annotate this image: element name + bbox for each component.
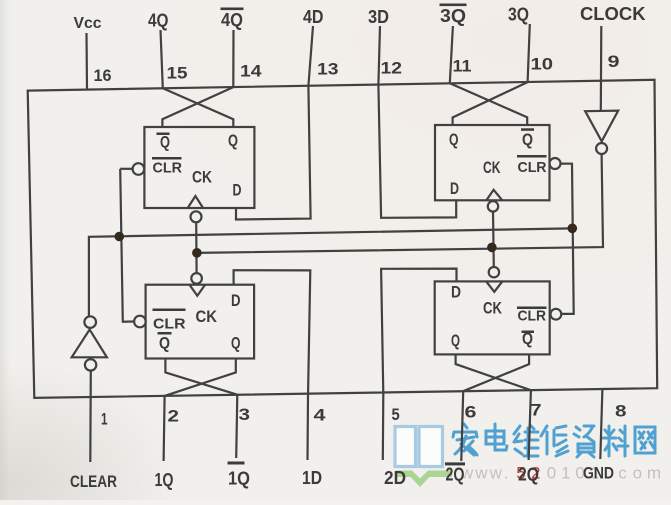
junction clear-right [568, 224, 578, 234]
wire crossover U3 Qbar to pin3 [165, 359, 237, 395]
svg-text:2: 2 [168, 407, 180, 426]
clock triangle U4 [486, 281, 502, 291]
svg-text:Q: Q [231, 334, 241, 353]
svg-text:CLEAR: CLEAR [70, 472, 117, 491]
clock bubble U3 [191, 273, 202, 284]
label 3Qbar [440, 4, 467, 27]
svg-text:Q: Q [228, 131, 238, 150]
svg-text:3: 3 [239, 405, 251, 424]
label U1 CLR [152, 157, 182, 177]
wire crossover pin14 to U1 Qbar [162, 87, 233, 127]
svg-text:1Q: 1Q [155, 470, 174, 490]
svg-text:CLR: CLR [153, 160, 183, 177]
clock bubble U1 [191, 211, 202, 222]
svg-text:CK: CK [483, 158, 501, 177]
svg-text:3Q: 3Q [508, 5, 529, 25]
junction clock-right [487, 243, 497, 253]
svg-text:9: 9 [608, 52, 620, 71]
svg-text:CLR: CLR [518, 159, 547, 176]
svg-text:CK: CK [192, 168, 213, 187]
clock bubble U4 [489, 267, 499, 277]
watermark chinese char jia [453, 424, 477, 455]
wire pin12 3D to FF3 D input [378, 26, 456, 218]
svg-text:Q: Q [449, 130, 459, 149]
clock triangle U3 [190, 285, 206, 296]
wire pin7 2Q [529, 390, 531, 460]
svg-text:3D: 3D [368, 7, 389, 27]
wire pin16 Vcc [85, 33, 88, 90]
svg-text:D: D [450, 179, 459, 198]
svg-text:CLR: CLR [153, 316, 186, 333]
flip-flop U2 box [435, 125, 550, 200]
svg-text:4Q: 4Q [148, 11, 169, 31]
wire crossover pin15 to U1 Q [163, 88, 234, 127]
flip-flop U1 box [144, 127, 254, 208]
wire crossover U4 Q to pin7 [456, 354, 531, 390]
wire clear bus horizontal [89, 228, 572, 316]
svg-text:6: 6 [465, 403, 477, 422]
svg-text:10: 10 [531, 55, 554, 74]
label U3 CLR [153, 309, 186, 333]
svg-text:16: 16 [94, 66, 112, 85]
watermark chinese char xiu [541, 426, 568, 456]
label 4Qbar [221, 8, 244, 31]
wire pin14 4Qbar [232, 30, 234, 87]
watermark book icon left page [395, 427, 416, 467]
svg-text:D: D [233, 181, 242, 200]
watermark chinese char liao [603, 426, 628, 456]
watermark chinese char wei [514, 425, 538, 456]
label U3 Qbar [158, 332, 172, 353]
wire clock bus horizontal [197, 154, 603, 253]
svg-text:5: 5 [392, 405, 400, 424]
svg-text:1: 1 [101, 410, 108, 429]
wire pin15 4Q [161, 30, 163, 88]
svg-text:Q: Q [522, 130, 533, 149]
label 2Qbar [445, 462, 465, 484]
wire U3 D input from pin4 [234, 270, 311, 460]
watermark chinese char wang [635, 427, 655, 453]
clock triangle U2 [486, 190, 502, 201]
wire clear vertical to U1 and U3 CLR [120, 168, 132, 170]
watermark book icon right page [419, 427, 443, 467]
wire U4 D input from pin5 [381, 269, 456, 460]
wire pin8 GND [600, 389, 602, 459]
inverter U6 input bubble [85, 359, 96, 370]
wire pin2 1Q [164, 396, 165, 461]
svg-text:w: w [489, 464, 503, 483]
svg-text:Q: Q [159, 334, 170, 353]
watermark chinese char dian [486, 424, 507, 450]
svg-text:3Q: 3Q [440, 6, 466, 26]
svg-text:8: 8 [615, 402, 627, 421]
IC outline rectangle [28, 80, 658, 398]
inverter U5 output bubble [596, 143, 607, 154]
svg-text:CK: CK [483, 299, 503, 318]
svg-text:Q: Q [160, 133, 170, 152]
svg-text:o: o [633, 464, 642, 483]
svg-text:c: c [618, 464, 627, 483]
watermark green swoosh [396, 471, 452, 488]
svg-text:CK: CK [196, 307, 218, 326]
svg-text:2D: 2D [384, 468, 406, 488]
wire pin3 1Qbar [236, 395, 237, 458]
watermark url text [460, 464, 661, 483]
label U2 Qbar [521, 128, 534, 149]
label 1Qbar [228, 462, 251, 489]
wire pin6 2Qbar [461, 391, 463, 461]
wire crossover pin11 to U2 Qbar [450, 83, 527, 125]
label U2 CLR [517, 155, 547, 176]
svg-text:4Q: 4Q [221, 10, 243, 30]
clock bubble U2 [488, 201, 498, 211]
svg-text:12: 12 [381, 59, 403, 78]
svg-text:m: m [647, 464, 661, 483]
wire pin1 CLEAR [89, 371, 92, 462]
wire clock branch U1-U3 [195, 222, 198, 273]
svg-text:4D: 4D [303, 7, 324, 27]
wire crossover pin10 to U2 Q [453, 82, 528, 125]
inverter U5 triangle [585, 111, 618, 142]
wire clock branch U2-U4 [492, 212, 495, 267]
label U4 CLR [517, 307, 547, 325]
svg-text:1D: 1D [302, 468, 322, 488]
svg-text:4: 4 [314, 405, 327, 424]
svg-text:Q: Q [451, 331, 460, 350]
svg-text:CLOCK: CLOCK [580, 4, 646, 24]
wire clear vertical branch [120, 169, 134, 322]
svg-text:D: D [231, 291, 241, 310]
svg-text:1: 1 [561, 464, 570, 483]
svg-text:w: w [474, 464, 488, 483]
clear bubble U2 [550, 158, 561, 169]
wire crossover U3 Q to pin2 [165, 359, 236, 396]
flip-flop U3 box [146, 285, 255, 359]
wire crossover U4 Qbar to pin6 [463, 354, 529, 391]
svg-text:2Q: 2Q [446, 465, 465, 485]
svg-text:14: 14 [240, 62, 262, 81]
svg-text:Vcc: Vcc [74, 15, 102, 32]
watermark chinese char zi [574, 426, 594, 457]
junction clock-left [192, 248, 202, 258]
clear bubble U4 [551, 309, 562, 320]
junction clear-left [115, 232, 125, 242]
wire pin11 3Qbar [450, 26, 453, 83]
wire clear right vertical U2-U4 CLR [561, 164, 574, 314]
clear bubble U1 [133, 163, 145, 175]
svg-text:.: . [504, 464, 509, 483]
label U1 Qbar [157, 133, 171, 152]
wire pin10 3Q [528, 24, 530, 82]
flip-flop U4 box [435, 281, 550, 354]
wire pin9 CLOCK to inverter input [600, 26, 603, 111]
svg-text:0: 0 [547, 464, 556, 483]
wire pin13 4D to FF4 D input [236, 26, 313, 220]
svg-text:15: 15 [167, 64, 188, 83]
clear bubble U3 [134, 316, 146, 328]
svg-text:GND: GND [583, 464, 614, 483]
svg-text:2Q: 2Q [518, 465, 539, 485]
label U4 Qbar [522, 329, 535, 348]
svg-text:7: 7 [531, 401, 542, 420]
svg-text:1Q: 1Q [228, 469, 250, 489]
svg-text:D: D [451, 283, 461, 302]
clock triangle U1 [188, 196, 203, 208]
svg-text:CLR: CLR [518, 308, 547, 325]
inverter U6 output bubble [84, 316, 96, 328]
svg-text:11: 11 [453, 57, 472, 76]
inverter U6 triangle [72, 330, 107, 358]
svg-text:13: 13 [317, 60, 339, 79]
